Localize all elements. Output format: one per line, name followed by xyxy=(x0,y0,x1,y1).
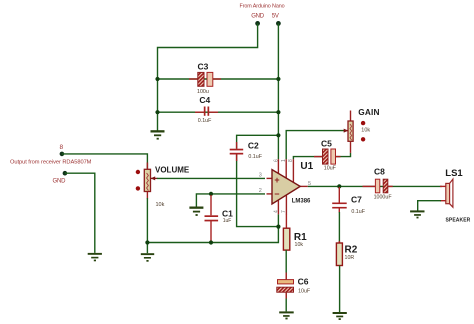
svg-text:C3: C3 xyxy=(198,62,209,72)
wire pot bottom to ground G4 xyxy=(146,198,148,253)
capacitor C3 xyxy=(189,62,221,95)
wire C2 bottom to pin4 node xyxy=(237,155,279,227)
capacitor C6 xyxy=(277,277,311,295)
ground G6 xyxy=(333,312,347,320)
wire C7 to R2 xyxy=(338,212,340,243)
wire C6 to ground G5 xyxy=(285,292,287,311)
svg-text:8: 8 xyxy=(60,144,64,151)
resistor R1 xyxy=(283,214,307,250)
node 5V terminal dot xyxy=(276,21,281,26)
svg-text:+: + xyxy=(274,175,279,185)
wire R1 bottom to C6 xyxy=(285,250,287,280)
svg-text:0.1uF: 0.1uF xyxy=(248,154,262,160)
svg-text:R2: R2 xyxy=(345,244,358,255)
wire GND input to ground G3 xyxy=(65,173,95,253)
svg-text:Output from receiver RDA5807M: Output from receiver RDA5807M xyxy=(10,159,92,165)
svg-text:2: 2 xyxy=(259,188,262,194)
svg-text:GAIN: GAIN xyxy=(358,107,380,117)
svg-text:5V: 5V xyxy=(272,13,279,19)
wire C2 top link from 5V junction xyxy=(237,135,279,148)
junction dot pin4/C2 xyxy=(276,225,280,229)
junction dot output node xyxy=(337,184,341,188)
ground G3 xyxy=(88,253,102,261)
wire output pin5 to speaker xyxy=(308,185,442,187)
ground G5 xyxy=(279,311,294,319)
svg-text:C2: C2 xyxy=(248,141,259,151)
wire 5V rail down to pin 6 xyxy=(277,23,279,159)
node GND terminal dot (left) xyxy=(63,171,68,176)
svg-text:1uF: 1uF xyxy=(223,218,232,224)
junction dot C1 top xyxy=(209,192,213,196)
svg-text:0.1uF: 0.1uF xyxy=(351,209,365,215)
node 8 terminal dot xyxy=(60,152,65,157)
svg-text:C5: C5 xyxy=(321,139,332,149)
svg-text:C8: C8 xyxy=(374,167,385,177)
ground G1 (left rail) xyxy=(151,130,165,139)
svg-text:GND: GND xyxy=(53,179,67,185)
junction dot 5V / pin6 / C2 xyxy=(276,133,280,137)
potentiometer GAIN xyxy=(344,107,380,153)
wire R2 to ground G6 xyxy=(339,266,341,313)
svg-text:3: 3 xyxy=(259,173,262,179)
junction dots C3/C4 rows xyxy=(155,77,159,81)
svg-text:0.1uF: 0.1uF xyxy=(198,118,212,124)
wire pin1 up and right to GAIN wiper xyxy=(286,131,344,160)
svg-text:10k: 10k xyxy=(361,128,370,134)
op-amp U1 LM386 xyxy=(259,159,314,214)
junction dot C1 bottom xyxy=(209,240,213,244)
svg-text:1: 1 xyxy=(281,159,287,162)
wire C5 right to GAIN bottom xyxy=(336,153,351,157)
wire GND from top terminal down-left to left rail xyxy=(158,23,258,130)
capacitor C7 xyxy=(332,187,366,215)
svg-text:10k: 10k xyxy=(295,242,304,248)
svg-text:U1: U1 xyxy=(300,161,313,172)
speaker LS1 xyxy=(440,168,471,223)
wire wiper to pin 3 xyxy=(157,177,265,179)
svg-text:1000uF: 1000uF xyxy=(374,194,393,200)
potentiometer VOLUME xyxy=(136,165,190,208)
wire C3 row xyxy=(158,78,279,80)
wire pin8 to C5 xyxy=(293,157,322,160)
wire pin2 / ground node xyxy=(196,194,265,207)
svg-text:4: 4 xyxy=(274,210,280,213)
svg-text:10uF: 10uF xyxy=(298,288,311,294)
svg-text:10k: 10k xyxy=(156,202,165,208)
wire pin4 node down and left to pot bottom xyxy=(147,214,278,242)
svg-text:VOLUME: VOLUME xyxy=(155,165,190,174)
svg-text:C4: C4 xyxy=(199,95,210,105)
svg-text:C6: C6 xyxy=(298,277,309,287)
svg-text:From Arduino Nano: From Arduino Nano xyxy=(240,3,285,9)
capacitor C2 xyxy=(230,141,263,161)
ground G7 xyxy=(410,210,424,218)
junction dot pot bottom node xyxy=(145,240,149,244)
ground G2 xyxy=(189,207,203,216)
capacitor C5 xyxy=(321,139,337,172)
svg-text:6: 6 xyxy=(274,159,280,162)
node GND terminal dot xyxy=(255,21,260,26)
svg-text:10uF: 10uF xyxy=(324,166,337,172)
svg-text:GND: GND xyxy=(251,13,265,19)
capacitor C8 xyxy=(363,167,393,201)
wire C4 row xyxy=(158,111,279,113)
svg-text:10R: 10R xyxy=(345,255,355,261)
wire input 8 to volume top xyxy=(62,154,147,169)
svg-text:7: 7 xyxy=(281,210,287,213)
ground G4 xyxy=(141,253,154,262)
svg-text:SPEAKER: SPEAKER xyxy=(446,218,471,224)
svg-text:C7: C7 xyxy=(351,195,362,205)
svg-text:−: − xyxy=(274,189,279,199)
svg-text:8: 8 xyxy=(288,159,294,162)
svg-text:LS1: LS1 xyxy=(445,168,463,179)
svg-text:LM386: LM386 xyxy=(292,199,311,205)
wire speaker bottom to ground G7 xyxy=(418,201,441,211)
resistor R2 xyxy=(336,243,357,266)
capacitor C4 xyxy=(195,95,218,124)
capacitor C1 xyxy=(205,195,234,242)
